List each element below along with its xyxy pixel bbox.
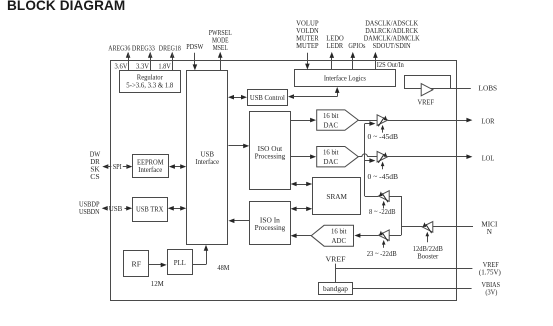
svg-text:5->3.6, 3.3 & 1.8: 5->3.6, 3.3 & 1.8: [126, 82, 173, 90]
svg-text:Regulator: Regulator: [137, 73, 164, 81]
svg-text:1.8V: 1.8V: [158, 62, 171, 70]
svg-text:SRAM: SRAM: [326, 193, 347, 201]
svg-text:(1.75V): (1.75V): [479, 268, 502, 276]
svg-text:bandgap: bandgap: [323, 285, 348, 293]
svg-text:DAC: DAC: [324, 121, 339, 129]
svg-text:VREF: VREF: [417, 98, 434, 106]
svg-text:MUTEP: MUTEP: [296, 42, 319, 50]
svg-text:(3V): (3V): [485, 289, 498, 297]
svg-text:DREG18: DREG18: [159, 44, 181, 52]
svg-text:I2S Out/In: I2S Out/In: [377, 61, 404, 69]
svg-text:PDSW: PDSW: [186, 43, 203, 51]
svg-text:VREF: VREF: [326, 255, 346, 263]
svg-text:16 bit: 16 bit: [323, 112, 339, 120]
svg-text:16 bit: 16 bit: [331, 227, 347, 235]
svg-text:SPI: SPI: [113, 163, 123, 171]
svg-text:LOBS: LOBS: [479, 85, 498, 93]
svg-text:23 ~ -22dB: 23 ~ -22dB: [367, 250, 397, 258]
svg-text:Processing: Processing: [255, 152, 286, 160]
svg-text:SDOUT/SDIN: SDOUT/SDIN: [373, 42, 412, 50]
svg-text:DREG33: DREG33: [132, 44, 155, 52]
svg-text:RF: RF: [132, 260, 142, 268]
svg-text:N: N: [487, 228, 493, 236]
svg-text:48M: 48M: [217, 264, 230, 272]
svg-text:Processing: Processing: [255, 224, 286, 232]
svg-text:8 ~ -22dB: 8 ~ -22dB: [369, 208, 396, 216]
svg-text:12M: 12M: [151, 280, 165, 288]
svg-text:Booster: Booster: [417, 253, 439, 261]
svg-text:USBDN: USBDN: [79, 208, 100, 216]
svg-text:DAC: DAC: [324, 158, 339, 166]
svg-text:16 bit: 16 bit: [323, 149, 339, 157]
svg-text:PLL: PLL: [174, 259, 186, 267]
svg-text:LOL: LOL: [482, 155, 495, 163]
svg-text:Interface: Interface: [196, 158, 220, 166]
svg-text:3.6V: 3.6V: [115, 62, 129, 70]
svg-text:LOR: LOR: [482, 117, 495, 125]
svg-text:CS: CS: [90, 173, 99, 181]
svg-text:ADC: ADC: [332, 237, 347, 245]
svg-text:GPIOs: GPIOs: [348, 42, 365, 50]
svg-text:AREG36: AREG36: [108, 44, 130, 52]
svg-text:Interface: Interface: [138, 166, 162, 174]
svg-text:MSEL: MSEL: [213, 44, 228, 52]
svg-text:3.3V: 3.3V: [136, 62, 150, 70]
svg-text:USB Control: USB Control: [250, 94, 285, 102]
svg-text:Interface Logics: Interface Logics: [324, 75, 366, 83]
svg-text:USB TRX: USB TRX: [136, 205, 164, 213]
svg-text:LEDR: LEDR: [327, 42, 344, 50]
svg-text:0 ~ -45dB: 0 ~ -45dB: [368, 133, 399, 141]
svg-text:0 ~ -45dB: 0 ~ -45dB: [368, 173, 399, 181]
svg-text:USB: USB: [109, 205, 123, 213]
